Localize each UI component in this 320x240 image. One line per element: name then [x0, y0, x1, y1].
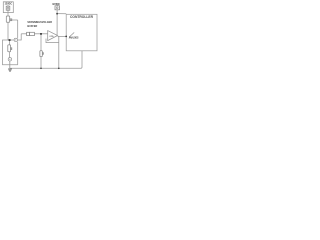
svg-text:9VDC: 9VDC — [52, 2, 60, 6]
svg-text:OPA: OPA — [49, 35, 54, 38]
svg-text:CONTROLLER: CONTROLLER — [70, 15, 94, 19]
svg-text:12VDC: 12VDC — [5, 2, 13, 5]
svg-text:BUFFER: BUFFER — [27, 24, 37, 28]
svg-text:ANALOOG: ANALOOG — [69, 37, 79, 40]
